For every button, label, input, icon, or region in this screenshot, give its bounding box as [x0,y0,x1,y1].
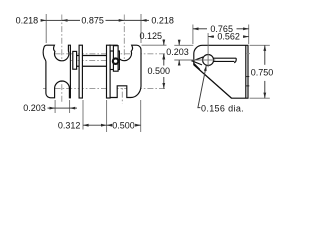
svg-text:0.875: 0.875 [81,16,104,26]
svg-text:0.562: 0.562 [217,32,240,42]
right hub [113,46,118,71]
dimension 0.218 top right [124,14,174,43]
centerline rivet axis horizontal [66,60,121,62]
right view plate outline [194,45,248,98]
left flange [73,51,77,69]
shaft (rivet) [77,56,107,67]
slot lines in right view [213,58,236,63]
centerline bottom slot axis horizontal [43,88,167,90]
dimension 0.203 bottom left [23,100,77,113]
right face plate [107,45,111,98]
dimension 0.765 [193,24,249,44]
svg-text:0.218: 0.218 [16,16,39,26]
centerline left clip vertical [61,15,63,104]
dimension 0.500 bottom [107,100,141,132]
dimension 0.750 [250,45,274,98]
right flange [110,51,119,70]
leader 0.156 dia [198,65,206,107]
dimension 0.500 right of left view [148,54,171,89]
svg-text:0.203: 0.203 [23,103,46,113]
dimension 0.218 top left [16,14,68,43]
left face plate [79,45,82,98]
right view plate inner right edge [245,45,247,98]
right view diagonal edge [194,65,232,98]
right edge tabs [246,77,250,86]
dimension 0.875 top [62,16,124,26]
hole centerline cross [201,53,215,67]
prong wedge [192,57,203,70]
svg-text:0.218: 0.218 [151,16,174,26]
left clip body outline [43,45,70,98]
svg-text:0.125: 0.125 [140,31,163,41]
centerline fuse axis horizontal [43,53,167,55]
dimension 0.125 right of left view [140,31,167,59]
dimension 0.562 [208,32,249,53]
svg-text:0.500: 0.500 [148,66,171,76]
svg-text:0.312: 0.312 [58,120,81,130]
centerline right bottom slot vertical [121,80,123,104]
svg-text:0.156 dia.: 0.156 dia. [201,104,244,114]
right rivet ring [113,58,119,64]
right edge notch mark [246,53,250,55]
svg-text:0.500: 0.500 [112,120,135,130]
right clip body outline [110,45,141,97]
svg-text:0.750: 0.750 [251,68,274,78]
hole 0.156 [203,55,214,66]
dimension 0.312 bottom [58,100,107,132]
svg-text:0.203: 0.203 [166,47,189,57]
dimension 0.203 right view (top edge to hole center) [166,40,201,66]
centerline right clip vertical [123,15,125,81]
